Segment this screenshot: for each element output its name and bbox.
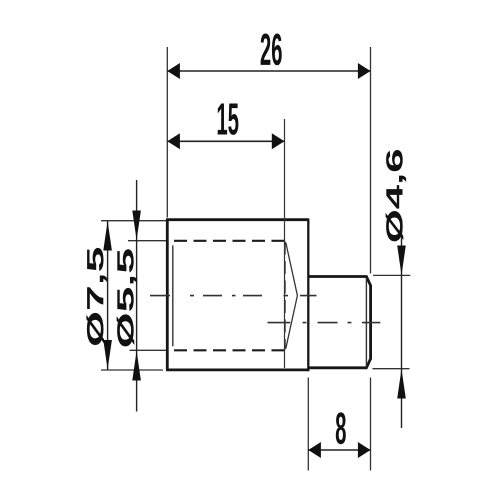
extension line top (d7.5) — [101, 220, 166, 222]
arrow d4.6 bottom — [397, 369, 406, 399]
label d5.5 — [117, 249, 138, 346]
body outline (main cylinder side view) — [166, 219, 308, 371]
extension line right (26) — [370, 47, 372, 274]
arrow d7.5 top — [103, 221, 112, 251]
hole entry chamfer edge line — [172, 245, 174, 346]
arrow d5.5 bottom — [132, 351, 141, 381]
label d7.5 — [86, 248, 107, 345]
arrow d7.5 bottom — [103, 340, 112, 370]
stud chamfer edge line — [365, 278, 367, 367]
extension line right (15) — [284, 119, 286, 368]
extension line top (d5.5) — [128, 240, 166, 242]
hole hidden line bottom — [174, 349, 286, 351]
label 15 — [218, 104, 239, 135]
arrow 26 right — [358, 63, 371, 79]
extension line left (8) — [307, 378, 309, 471]
dimension line d5.5 — [136, 180, 138, 412]
label 8 — [336, 412, 346, 444]
label 26 — [261, 34, 282, 66]
drill cone lower line — [286, 296, 298, 349]
arrow 8 right — [358, 442, 371, 458]
dimension line d4.6 — [401, 219, 403, 428]
extension line right (8) — [370, 378, 372, 471]
extension line bottom (d5.5) — [130, 349, 167, 351]
arrow 15 right — [272, 133, 285, 149]
main axis centerline — [150, 295, 317, 297]
hole end hidden line — [284, 242, 286, 350]
arrow d5.5 top — [132, 211, 141, 241]
extension line bottom (d7.5) — [101, 369, 163, 371]
dimension line 15 — [167, 140, 284, 142]
stud outline (threaded stud with chamfered end) — [308, 277, 370, 368]
dimension line 26 — [167, 70, 370, 72]
extension line bottom (d4.6) — [373, 368, 410, 370]
arrow 26 left — [167, 63, 180, 79]
arrow d4.6 top — [397, 246, 406, 276]
arrow 15 left — [167, 133, 180, 149]
label d4.6 — [386, 150, 407, 241]
dimension line 8 — [308, 449, 370, 451]
dimension line d7.5 — [107, 221, 109, 370]
drill cone upper line — [286, 243, 298, 296]
arrow 8 left — [308, 442, 321, 458]
extension line left (26,15) — [166, 47, 168, 218]
hole hidden line top — [174, 240, 286, 242]
stud axis centerline — [268, 322, 381, 324]
body right edge — [307, 219, 309, 372]
extension line top (d4.6) — [373, 274, 410, 276]
